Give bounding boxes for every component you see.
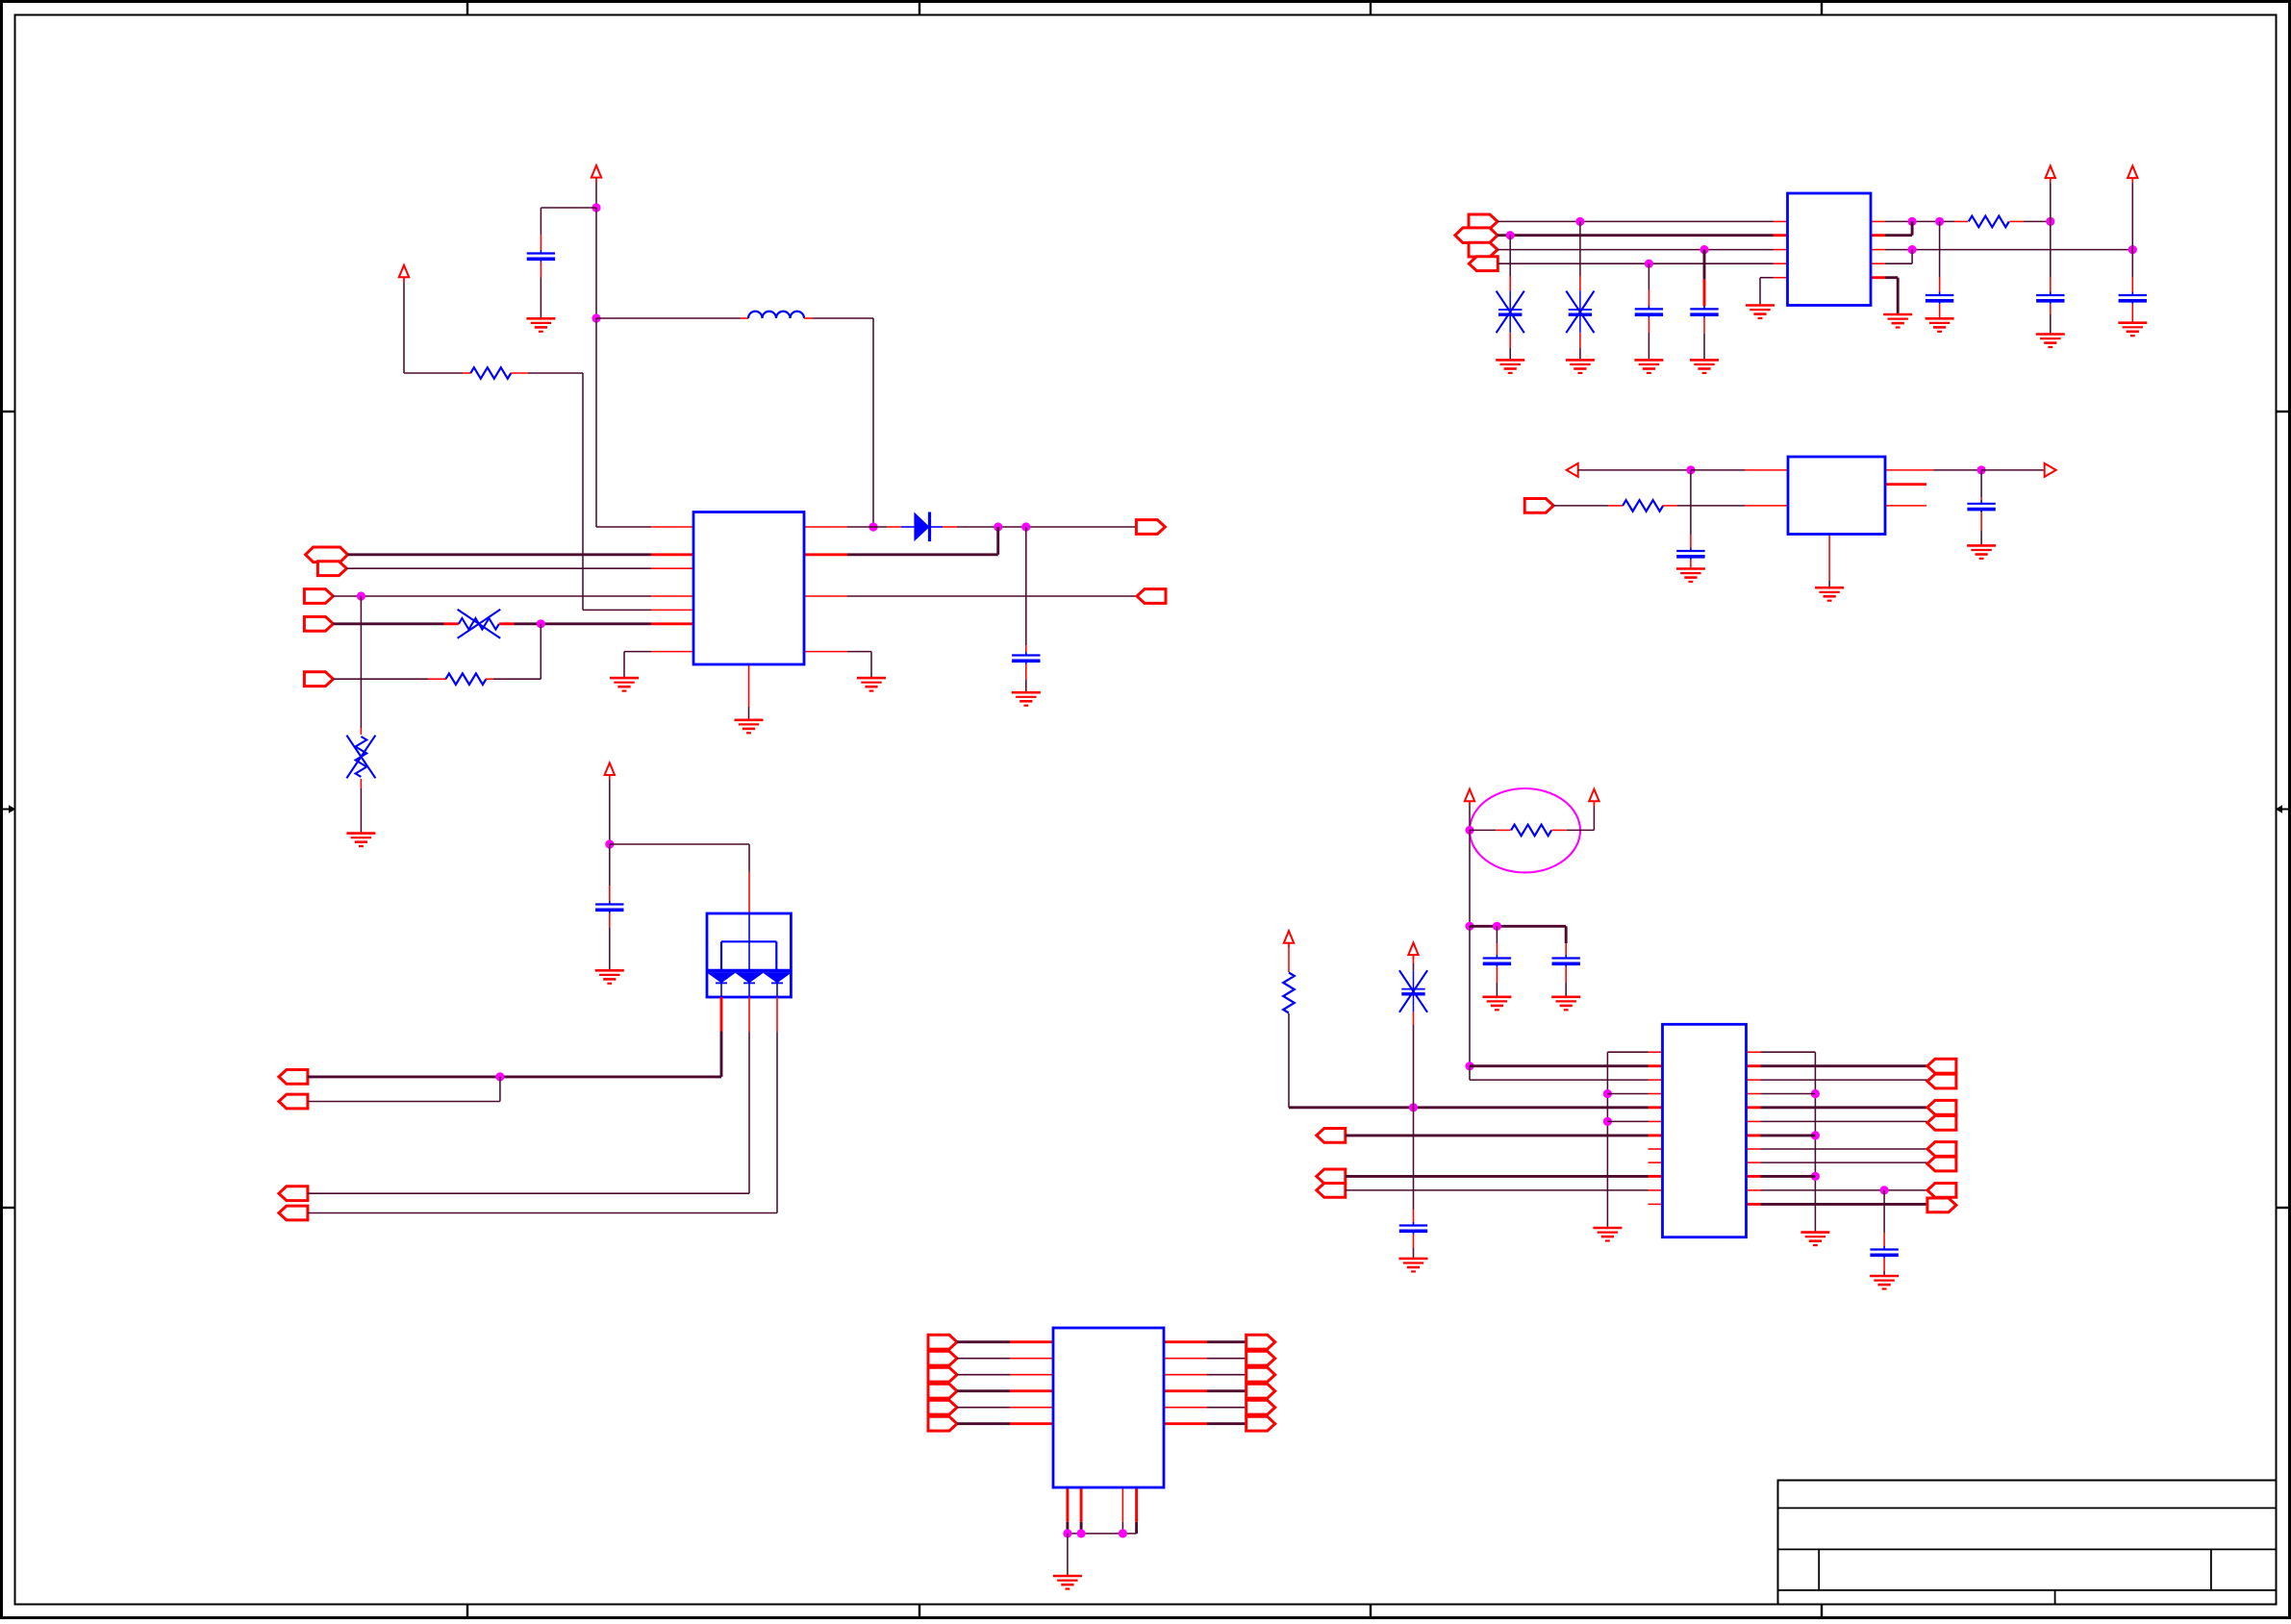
- junction J29: [1603, 1089, 1612, 1098]
- junction J13: [1935, 217, 1944, 226]
- wire P3 to U1 row5: [333, 595, 651, 597]
- wire J1 to junction J2: [595, 208, 597, 318]
- wire J28 to capacitor C14: [1883, 1190, 1885, 1233]
- border zone tick left: [2, 411, 15, 412]
- wire U4 centre pin to P9 rail: [748, 1032, 750, 1193]
- border zone tick bottom: [919, 1605, 920, 1618]
- wire U5 R2 right to port: [1747, 1079, 1761, 1081]
- ground G11: [1883, 314, 1912, 328]
- pin U2 rowE stub: [1774, 277, 1788, 279]
- pin U3 rowQ stub: [1745, 505, 1788, 507]
- wire C7 to ground G14: [2131, 304, 2133, 321]
- port connector left 6: [928, 1416, 957, 1431]
- wire J4 to U1 feedback pin: [996, 527, 999, 555]
- left ground bus wire: [1606, 1052, 1608, 1227]
- capacitor C10: [595, 901, 623, 913]
- ground G17: [1967, 545, 1996, 559]
- border centre arrow left: [3, 805, 16, 812]
- ground G20: [1551, 997, 1580, 1011]
- wire U5 R9 right to bus: [1747, 1175, 1761, 1178]
- junction J30: [1603, 1117, 1612, 1126]
- port P7: [279, 1070, 308, 1085]
- wire R5 to power arrow A7: [1551, 829, 1567, 831]
- capacitor C8: [1676, 548, 1704, 561]
- capacitor C13: [1399, 1222, 1427, 1235]
- port P10: [279, 1206, 308, 1220]
- pin U4 centre stub: [748, 997, 750, 1032]
- pin U6 left stub 6: [1010, 1422, 1053, 1425]
- pin U4 right stub: [776, 997, 778, 1032]
- border zone tick top: [1821, 2, 1823, 15]
- ground G10: [1690, 360, 1719, 373]
- wire U5 R11 right to port: [1747, 1203, 1761, 1206]
- wire U2 rowC to junction J15: [1885, 249, 2132, 251]
- wire RV1 to U1 row7: [499, 622, 514, 625]
- pin U6 right stub 3: [1164, 1374, 1207, 1376]
- wire U6 pin4 to rail: [1135, 1522, 1138, 1534]
- wire U5 R4 right to port: [1747, 1106, 1761, 1109]
- pin U1 row6 stub: [651, 609, 693, 611]
- wire J17 to U3: [1691, 469, 1745, 471]
- port P6: [1137, 589, 1166, 604]
- wire connector right 3: [1207, 1374, 1246, 1376]
- ground G3: [857, 678, 886, 691]
- port connector right 1: [1246, 1335, 1275, 1349]
- junction J31: [1811, 1089, 1820, 1098]
- junction J9: [1575, 217, 1584, 226]
- ground G15: [1676, 569, 1705, 583]
- pin U6 right stub 1: [1164, 1340, 1207, 1343]
- wire connector right 6: [1207, 1422, 1246, 1425]
- pin U1 VIN stub: [651, 526, 693, 528]
- wire D1 to output port: [943, 526, 957, 528]
- wire U3 to junction J18: [1933, 469, 1981, 471]
- pin U6 bottom stub 4: [1135, 1487, 1138, 1522]
- junction J7: [357, 591, 365, 600]
- wire rail to capacitor C12: [1565, 926, 1568, 943]
- wire connector left 1: [957, 1340, 1010, 1343]
- pin U1 row5 stub: [651, 595, 693, 597]
- ground G18: [595, 970, 624, 984]
- pin U3 NC stub 1: [1885, 483, 1926, 486]
- title block column divider right: [2210, 1549, 2212, 1589]
- wire U2 rowB up to J12: [1885, 234, 1912, 237]
- pin U1 row9 left stub: [651, 651, 693, 653]
- ground G21: [1399, 1259, 1428, 1272]
- wire connector right 1: [1207, 1340, 1246, 1343]
- pin U5 R1 stub: [1649, 1064, 1663, 1067]
- wire Q5 to resistor R4: [1553, 505, 1608, 507]
- power flag VBAT arrow A2: [399, 265, 409, 283]
- capacitor C3: [1635, 306, 1663, 318]
- port pair1 lower: [1927, 1074, 1956, 1088]
- pin U5 R11 NC stub: [1649, 1203, 1663, 1205]
- wire R4 to U3: [1663, 505, 1677, 507]
- ground G23: [1800, 1233, 1829, 1246]
- wire C13 to ground G21: [1413, 1235, 1415, 1248]
- wire J1 to capacitor C1: [541, 207, 596, 209]
- pin U1 row3 stub: [651, 567, 693, 569]
- wire connector left 4: [957, 1389, 1010, 1392]
- pin U5 R9 stub: [1649, 1175, 1663, 1178]
- junction J14: [2046, 217, 2054, 226]
- pin U6 right stub 5: [1164, 1407, 1207, 1409]
- pin U1 GND bottom stub: [748, 664, 750, 707]
- wire J18 to capacitor C9: [1980, 470, 1982, 497]
- right ground bus wire: [1814, 1052, 1816, 1231]
- wire Q2 to U2: [1498, 234, 1774, 237]
- wire R3 to junction J14: [2009, 220, 2024, 222]
- border zone tick bottom: [466, 1605, 468, 1618]
- wire connector right 4: [1207, 1389, 1246, 1392]
- junction J17: [1686, 465, 1695, 474]
- resistor R6: [1283, 973, 1295, 1013]
- varistor RV3: [1497, 291, 1524, 334]
- varistor RV4: [1566, 291, 1594, 334]
- wire R6 to U5 pin R4: [1288, 1013, 1290, 1108]
- resistor R5: [1511, 825, 1551, 837]
- wire U6 ground rail: [1068, 1533, 1137, 1535]
- fuse ellipse F1: [1470, 788, 1580, 872]
- port Q1: [1469, 214, 1498, 229]
- port P3: [304, 589, 333, 604]
- power flag VCC arrow A1: [592, 165, 601, 183]
- border centre arrow right: [2276, 805, 2289, 812]
- border zone tick top: [919, 2, 920, 15]
- wire U5 R7 right to port: [1747, 1148, 1761, 1150]
- wire connector left 2: [957, 1358, 1010, 1360]
- wire J24 down to U5 pin R2: [1469, 1066, 1471, 1080]
- pin U2 rowA stub: [1774, 220, 1788, 222]
- wire connector left 3: [957, 1374, 1010, 1376]
- pin U1 row5 right stub: [804, 595, 847, 597]
- junction J5: [1021, 522, 1030, 531]
- wire U1 GND to ground G2: [748, 707, 750, 719]
- pin U6 left stub 4: [1010, 1389, 1053, 1392]
- wire A4 to J15 and capacitor C7: [2131, 178, 2133, 183]
- transceiver IC U5: [1663, 1024, 1747, 1237]
- wire C5 to ground G12: [1939, 304, 1941, 317]
- port connector right 3: [1246, 1367, 1275, 1382]
- pin U2 rowA right stub: [1871, 220, 1885, 222]
- resistor R1: [470, 367, 511, 379]
- wire P11 to U5 pin R6: [1346, 1134, 1649, 1137]
- wire J19 to capacitor C10: [609, 844, 611, 886]
- wire U5 R3 right to bus: [1747, 1093, 1761, 1095]
- junction J12: [1908, 217, 1917, 226]
- wire Q4 to U2: [1498, 262, 1773, 264]
- pin U6 left stub 2: [1010, 1358, 1053, 1360]
- pin U6 left stub 3: [1010, 1374, 1053, 1376]
- port Q4: [1469, 257, 1498, 271]
- pin U1 row7 stub: [651, 622, 693, 625]
- ground G12: [1926, 318, 1954, 332]
- ground G1b: [610, 678, 639, 691]
- wire Q3 to U2: [1498, 249, 1774, 251]
- wire J18 to net arrow right: [1981, 469, 2045, 471]
- port P11: [1317, 1129, 1346, 1143]
- pin U6 right stub 6: [1164, 1422, 1207, 1425]
- title block row divider 3: [1778, 1589, 2277, 1591]
- title block outline: [1778, 1481, 2277, 1605]
- port connector right 5: [1246, 1400, 1275, 1414]
- pin U5 R10 stub: [1649, 1189, 1663, 1191]
- pin U6 left stub 5: [1010, 1407, 1053, 1409]
- wire connector left 5: [957, 1407, 1010, 1409]
- pin U5 right R0 stub: [1747, 1051, 1761, 1053]
- capacitor C12: [1552, 955, 1580, 967]
- power flag arrow A4: [2127, 166, 2137, 184]
- wire J25 to junction J24: [1469, 926, 1471, 1065]
- wire RV4 to ground G8: [1579, 333, 1581, 348]
- ground G19: [1482, 997, 1511, 1011]
- pin U2 rowE right stub: [1871, 276, 1885, 279]
- ground G13: [2036, 335, 2065, 348]
- border zone tick bottom: [1821, 1605, 1823, 1618]
- port pair3 lower: [1927, 1157, 1956, 1171]
- capacitor C7: [2119, 292, 2147, 305]
- pin U3 rowP right stub: [1885, 469, 1933, 471]
- pin U6 bottom stub 3: [1121, 1487, 1123, 1522]
- ground G4: [346, 834, 375, 847]
- wire RV2 to ground G4: [360, 779, 362, 788]
- wire U5 R0 to right ground bus: [1761, 1051, 1816, 1053]
- wire C9 to ground G17: [1980, 512, 1982, 531]
- port pair3 upper: [1927, 1142, 1956, 1157]
- junction J26: [1493, 922, 1501, 931]
- power flag arrow A3: [2046, 166, 2055, 184]
- wire J7 to varistor RV2: [360, 596, 362, 728]
- wire J5 to capacitor C2: [1025, 527, 1027, 645]
- junction J34: [1063, 1529, 1071, 1537]
- port P8: [279, 1094, 308, 1109]
- junction J21: [1465, 826, 1473, 835]
- capacitor C4: [1690, 306, 1718, 318]
- junction J32: [1811, 1131, 1820, 1139]
- wire J11 to capacitor C4: [1703, 250, 1706, 280]
- port P5: [304, 672, 333, 687]
- capacitor C2: [1012, 652, 1040, 664]
- port connector left 2: [928, 1351, 957, 1365]
- border zone tick right: [2277, 411, 2291, 412]
- ground G6: [1746, 306, 1775, 319]
- wire J30 to U5 pin R5: [1607, 1120, 1648, 1122]
- wire P10 to U4: [308, 1212, 777, 1214]
- wire connector right 2: [1207, 1358, 1246, 1360]
- port connector left 3: [928, 1367, 957, 1382]
- wire U5 R8 right to port: [1747, 1162, 1761, 1163]
- border zone tick right: [2277, 1207, 2291, 1209]
- pin U6 bottom stub 1: [1066, 1487, 1069, 1522]
- port VOUT right: [1136, 520, 1165, 535]
- port P12: [1317, 1169, 1346, 1184]
- wire U1 row9 right to ground G3: [847, 651, 871, 653]
- wire RV5 to junction J27: [1413, 1012, 1415, 1025]
- wire U5 R10 right to port: [1747, 1189, 1761, 1191]
- title block row divider 1: [1778, 1507, 2277, 1509]
- wire A2 to resistor R1: [403, 278, 405, 283]
- junction J11: [1699, 245, 1708, 254]
- title block column divider left: [1818, 1549, 1820, 1589]
- port P9: [279, 1187, 308, 1201]
- wire C12 to ground G20: [1565, 967, 1567, 983]
- pin U3 NC stub 2: [1885, 505, 1926, 507]
- wire C14 to ground G24: [1883, 1259, 1885, 1271]
- wire J29 to U5 pin R3: [1607, 1093, 1648, 1095]
- wire J17 to capacitor C8: [1690, 470, 1692, 535]
- interface IC U2: [1788, 193, 1872, 306]
- TVS diode array U4: [707, 913, 792, 997]
- ground G25: [1053, 1576, 1082, 1589]
- wire J10 to capacitor C3: [1648, 263, 1649, 289]
- title block row divider 2: [1778, 1548, 2277, 1550]
- port pair2 lower: [1927, 1115, 1956, 1130]
- power flag arrow A5: [605, 762, 615, 780]
- resistor R3: [1969, 216, 2009, 228]
- wire A9 to resistor R6: [1288, 943, 1290, 964]
- inductor L1: [748, 312, 804, 318]
- pin U5 R8 NC stub: [1649, 1162, 1663, 1163]
- junction J6: [537, 619, 545, 628]
- wire U5 R6 right to bus: [1747, 1134, 1761, 1137]
- port pair4 lower: [1927, 1198, 1956, 1212]
- wire connector left 6: [957, 1422, 1010, 1425]
- regulator IC U1: [693, 512, 804, 665]
- port pair2 upper: [1927, 1100, 1956, 1114]
- wire P9 to U4: [308, 1192, 749, 1194]
- junction J20: [495, 1072, 504, 1081]
- pin U2 rowD stub: [1774, 262, 1788, 264]
- wire P1 to U1 pin EN: [348, 553, 651, 556]
- junction J27: [1409, 1103, 1418, 1112]
- pin U2 rowB right stub: [1871, 234, 1885, 237]
- pin U2 rowC stub: [1774, 249, 1788, 251]
- wire P4 to varistor RV1: [333, 622, 443, 625]
- wire C8 to ground G15: [1690, 560, 1692, 567]
- varistor RV1: [458, 610, 501, 638]
- port connector left 5: [928, 1400, 957, 1414]
- pin U1 EN stub: [651, 553, 693, 556]
- wire U2 rowD up to J16: [1885, 262, 1912, 264]
- junction J36: [1119, 1529, 1127, 1537]
- wire A5 to junction J19: [609, 775, 611, 780]
- junction J16: [1908, 245, 1917, 254]
- port Q3: [1469, 242, 1498, 257]
- net arrow left: [1567, 463, 1578, 477]
- junction J3: [869, 522, 877, 531]
- port pair1 upper: [1927, 1059, 1956, 1073]
- port connector left 1: [928, 1335, 957, 1349]
- pin U5 R0 stub: [1649, 1051, 1663, 1053]
- resistor R2: [445, 673, 486, 685]
- wire RV3 to ground G7: [1509, 333, 1511, 348]
- wire U1 row9 to ground G1b: [624, 651, 651, 653]
- wire A8 to varistor RV5: [1413, 955, 1415, 963]
- ground G22: [1593, 1228, 1622, 1241]
- pin U1 SW stub: [804, 526, 847, 528]
- wire J25 to capacitor rail: [1470, 925, 1566, 928]
- junction J8: [1506, 231, 1515, 239]
- pin U5 R7 NC stub: [1649, 1148, 1663, 1150]
- wire J21 to junction J25: [1469, 830, 1471, 926]
- capacitor C5: [1926, 292, 1953, 305]
- wire arrow to junction J17: [1578, 469, 1691, 471]
- pin U6 bottom stub 2: [1080, 1487, 1083, 1522]
- ground G8: [1566, 360, 1595, 373]
- varistor RV2: [346, 736, 375, 779]
- wire P8 to junction J20: [308, 1101, 500, 1103]
- border zone tick left: [2, 1207, 15, 1209]
- junction J18: [1977, 465, 1986, 474]
- wire rail to ground G25: [1067, 1534, 1069, 1575]
- wire P7 to U4: [308, 1075, 721, 1078]
- ground G7: [1496, 360, 1524, 373]
- wire U1 row5 to port P6: [847, 595, 1137, 597]
- pin U2 rowC right stub: [1871, 249, 1885, 251]
- pin U6 left stub 1: [1010, 1340, 1053, 1343]
- border zone tick bottom: [1370, 1605, 1372, 1618]
- pin U3 rowP stub: [1745, 469, 1788, 471]
- power flag arrow A6: [1465, 789, 1474, 807]
- junction J24: [1465, 1062, 1473, 1070]
- wire connector right 5: [1207, 1407, 1246, 1409]
- wire J27 to capacitor C13: [1413, 1108, 1415, 1210]
- pin U5 R4 stub: [1649, 1106, 1663, 1109]
- capacitor C6: [2036, 292, 2064, 305]
- wire U2 rowE to ground G6: [1760, 277, 1774, 279]
- wire C10 to ground G18: [609, 913, 611, 928]
- port connector right 2: [1246, 1351, 1275, 1365]
- junction J25: [1465, 922, 1473, 931]
- wire U2 rowE right to ground G11: [1885, 276, 1898, 279]
- pin U3 GND stub: [1828, 535, 1830, 582]
- port P13: [1317, 1184, 1346, 1198]
- wire Q1 to U2: [1498, 220, 1774, 222]
- ground G16: [1815, 587, 1844, 601]
- pin U5 R3 stub: [1649, 1093, 1663, 1095]
- wire J24 to U5 pin R1: [1470, 1064, 1649, 1067]
- wire J8 to varistor RV3: [1509, 236, 1511, 276]
- diode D1: [901, 512, 943, 542]
- wire J26 to capacitor C11: [1496, 926, 1498, 943]
- pin U4 left stub: [720, 997, 723, 1032]
- wire A1 to node J1: [595, 178, 597, 183]
- wire U5 R5 right to port: [1747, 1120, 1761, 1122]
- wire J21 to resistor R5: [1470, 829, 1496, 831]
- wire C1 to ground G1: [540, 262, 541, 278]
- wire A6 to junction J21: [1469, 801, 1471, 806]
- pin U6 right stub 4: [1164, 1389, 1207, 1392]
- port P4: [304, 616, 333, 631]
- capacitor C1: [527, 250, 555, 262]
- junction J15: [2128, 245, 2137, 254]
- wire U2 rowA to resistor R3: [1885, 220, 1954, 222]
- border zone tick top: [1370, 2, 1372, 15]
- wire U1 SW to diode D1: [847, 526, 887, 528]
- wire C11 to ground G19: [1496, 967, 1498, 983]
- connector U6: [1053, 1328, 1164, 1487]
- power flag arrow A7: [1589, 789, 1599, 807]
- pin U6 right stub 2: [1164, 1358, 1207, 1360]
- level shifter IC U3: [1788, 457, 1885, 535]
- junction J28: [1880, 1186, 1889, 1194]
- varistor RV5: [1399, 970, 1427, 1012]
- pin U2 rowB stub: [1774, 234, 1788, 237]
- capacitor C11: [1483, 955, 1511, 967]
- ground G14: [2118, 323, 2147, 337]
- wire U5 R1 right to port: [1747, 1064, 1761, 1067]
- port pair4 upper: [1927, 1184, 1956, 1198]
